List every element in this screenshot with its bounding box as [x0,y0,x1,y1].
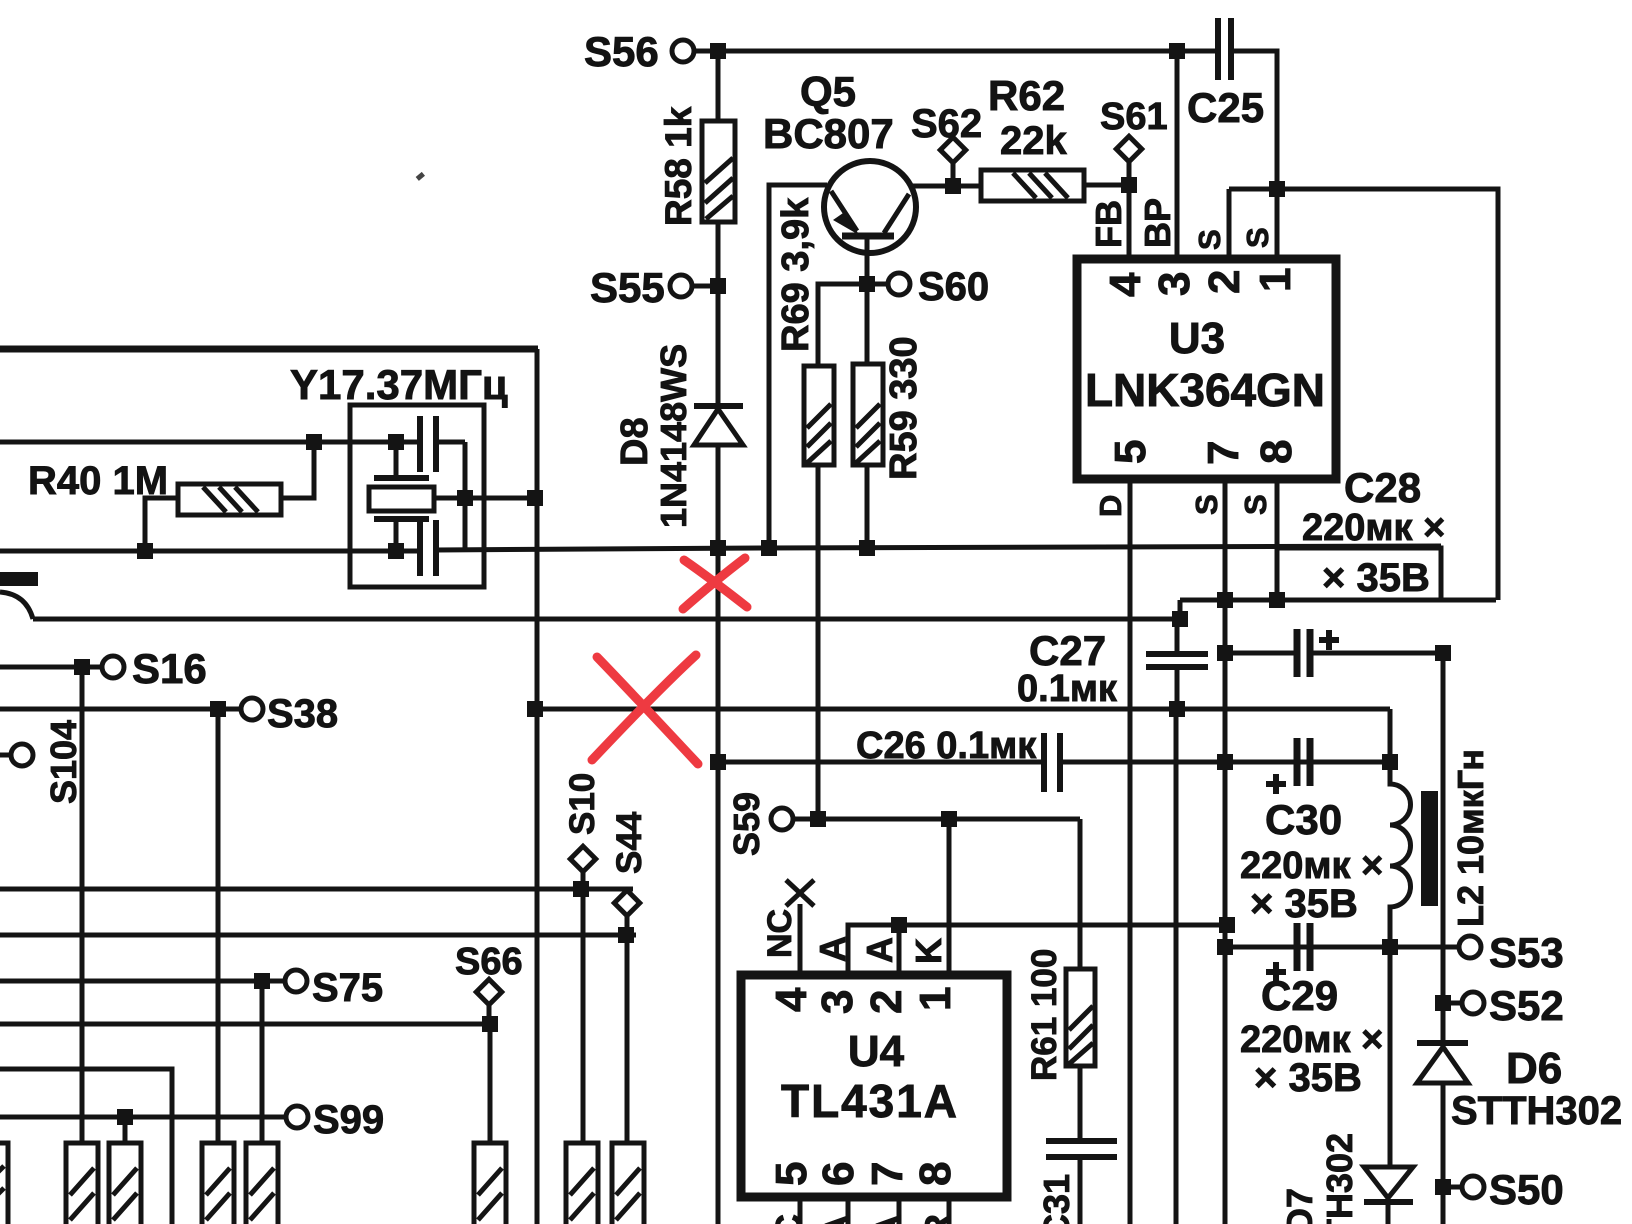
speck artifact [416,172,425,181]
svg-text:2: 2 [1200,270,1249,294]
node S60 [859,276,875,292]
resistor row R g x627 [612,1143,644,1224]
svg-text:S62: S62 [911,102,982,146]
wire R69 top jog to S60 node [818,284,867,366]
svg-text:BP: BP [1137,198,1178,248]
node crystal right [457,490,473,506]
wire S75 rail y981 [0,979,285,984]
wire S75 vertical x262 [260,981,265,1143]
svg-text:R: R [917,1214,958,1224]
left edge thick stub [0,572,38,586]
wire S16 vertical x82 [80,667,85,1143]
wire C25 right to corner down [1230,51,1277,190]
node A rail end x1227 [1219,917,1235,933]
wire U4 pin2 stub [897,925,902,975]
svg-text:8: 8 [911,1162,960,1186]
svg-text:22k: 22k [1000,119,1067,163]
wire main ground rail y548 [0,549,420,554]
svg-text:NC: NC [761,909,799,958]
svg-text:1: 1 [911,987,960,1011]
node crystal top [388,434,404,450]
node S55 x718 [710,278,726,294]
terminal S104 [11,744,33,766]
wire xtal upper rail y442 [0,440,420,445]
svg-text:1N4148WS: 1N4148WS [653,344,694,528]
inductor L2 coil [1390,762,1411,947]
resistor row R e x490 [474,1143,506,1224]
wire S38 rail y709 left [0,707,241,712]
crystal Y1 bottom plate [374,516,429,522]
svg-text:STTH302: STTH302 [1319,1133,1360,1224]
node S52 [1435,995,1451,1011]
node S99 x125 [117,1109,133,1125]
wire R62 right to S61 node [1084,183,1129,188]
wire S10 stem [581,871,586,889]
wire output vertical x1443 [1441,653,1446,1224]
resistor R58 stems [716,51,721,121]
wire S38 vertical x218 [216,709,221,1143]
svg-text:S38: S38 [267,692,338,736]
svg-text:× 35В: × 35В [1322,556,1430,600]
wire S59 rail y819 [818,817,1080,822]
svg-text:R58 1k: R58 1k [658,106,699,226]
wire top rail S56 to C25 [694,49,1218,54]
C28 35V label box [1277,548,1441,599]
node x1390 y947 [1382,939,1398,955]
wire S66 rail y1024 [0,1022,490,1027]
svg-text:C27: C27 [1029,627,1106,674]
svg-text:1: 1 [1251,268,1300,292]
wire S44 vertical to resistor [625,935,630,1143]
svg-text:S: S [1238,494,1273,515]
svg-text:S104: S104 [43,720,84,804]
node BP stub top x1177 [1169,43,1185,59]
wire BP pin3 stub from top rail [1175,51,1180,259]
svg-text:S10: S10 [563,773,602,835]
node module edge y498 [527,490,543,506]
svg-text:S56: S56 [584,28,659,75]
node S16 [74,659,90,675]
node S66 [482,1016,498,1032]
svg-text:LNK364GN: LNK364GN [1085,364,1325,416]
NC cross mark [786,880,814,906]
node pin2 A x899 [891,917,907,933]
svg-text:S: S [1189,494,1224,515]
wire R59 bottom stem [865,465,870,548]
svg-text:S: S [1192,229,1227,250]
node x718 y762 [710,754,726,770]
wire crystal right node to module edge [434,496,537,501]
svg-text:K: K [908,938,949,964]
transistor Q5 circle [824,161,916,253]
svg-text:R62: R62 [988,72,1065,119]
resistor bottom row partial at left edge [0,1143,8,1224]
svg-text:FB: FB [1088,200,1129,248]
svg-text:C31: C31 [1036,1174,1077,1224]
svg-text:7: 7 [1199,441,1248,465]
capacitor C27 plates [1146,651,1208,657]
transistor Q5 collector diagonal [884,194,909,233]
wire S59 stub [793,817,818,822]
node R40 right jog [306,434,322,450]
svg-text:D: D [1093,495,1128,517]
capacitor xtal top (series on y442) [417,416,423,472]
transistor Q5 base bar [842,233,894,240]
capacitor xtal bottom (series on ground rail) [417,520,423,576]
terminal S75 [285,970,307,992]
node K stub x949 [941,811,957,827]
red cross mark lower [597,657,698,764]
diode D8 [694,403,743,409]
capacitor C30 electrolytic on y762 [1294,738,1301,786]
resistor row R c x218 [202,1143,234,1224]
terminal S99 [286,1106,308,1128]
svg-text:S50: S50 [1489,1166,1564,1213]
node y709 module edge [527,701,543,717]
wire long rail y619 [33,617,1180,622]
wire jog up from y619 to y600 [1178,600,1183,619]
svg-text:S44: S44 [610,811,649,874]
wire U4 A rail y925 [848,925,1227,975]
resistor R40 body [178,484,281,515]
wire C29 rail y947 [1225,945,1458,950]
red cross mark upper [684,560,747,607]
svg-text:BC807: BC807 [763,110,894,157]
wire U4 pin5 bottom stub [798,1197,803,1224]
svg-text:8: 8 [1252,440,1301,464]
capacitor C25 [1215,18,1221,80]
node S38 [210,701,226,717]
terminal S66 diamond [476,979,501,1004]
wire Q5 base down to S60 node [865,236,870,283]
svg-text:S53: S53 [1489,929,1564,976]
node R59 ground x867 [859,540,875,556]
wire S66 vertical to resistor [488,1024,493,1143]
terminal S55 [670,275,692,297]
terminal S56 [672,40,694,62]
wire S44 rail y935 [0,933,636,938]
svg-text:5: 5 [1106,440,1155,464]
svg-text:S59: S59 [726,792,767,856]
terminal S10 diamond [570,846,595,871]
node C27 bottom y709 [1169,701,1185,717]
wire R40 left lead [145,498,178,548]
svg-text:C: C [768,1214,809,1224]
wire source rail y189 pins1-2 to right loop [1229,189,1498,600]
wire y1069 with corner down x172 [0,1069,172,1224]
wire D7 branch vertical x1390 [1388,947,1393,1167]
IC U4 box [741,975,1007,1197]
wire S10 vertical to resistor [581,889,586,1143]
node D8 ground x718 [710,540,726,556]
capacitor C28 electrolytic on y653 [1225,651,1297,656]
svg-text:4: 4 [767,987,816,1012]
wire U4 pin4 NC stub [798,904,803,975]
terminal S16 [102,656,124,678]
wire R69 bottom long stem to S59 [816,465,821,819]
wire R61 feed corner x1080 [1078,819,1083,969]
svg-text:C28: C28 [1344,464,1421,511]
svg-text:L2 10мкГн: L2 10мкГн [1450,749,1491,927]
wire D8 net vertical x718 down [716,548,721,1224]
capacitor C31 plates [1046,1138,1117,1144]
svg-text:C30: C30 [1265,796,1342,843]
svg-text:Y17.37МГц: Y17.37МГц [290,361,508,408]
diode D7 [1364,1167,1413,1198]
node S59 x818 [810,811,826,827]
terminal S60 [888,273,910,295]
svg-text:6: 6 [814,1162,863,1186]
wire C31 bottom lead [1078,1157,1083,1224]
big module box top edge [0,346,538,353]
node C28 right x1443 [1435,645,1451,661]
transistor Q5 emitter diagonal with arrow [831,191,857,231]
node C26 rail x1225 y762 [1217,754,1233,770]
wire S61 stub [1127,161,1132,183]
svg-text:U3: U3 [1169,314,1225,363]
wire S16 y667 [0,665,102,670]
wire Q5 emitter left leg to ground [769,185,827,548]
wire S10 rail y889 [0,887,633,892]
svg-text:A: A [817,1214,858,1224]
terminal S44 diamond [614,890,639,915]
resistor R61 body [1066,969,1095,1066]
svg-text:5: 5 [767,1162,816,1186]
svg-text:S: S [1240,227,1275,248]
svg-text:STTH302: STTH302 [1451,1089,1622,1133]
wire crystal right side vertical [463,442,468,548]
svg-text:S55: S55 [590,264,665,311]
svg-text:4: 4 [1101,272,1150,297]
svg-text:R59 330: R59 330 [883,336,925,480]
terminal S53 [1459,936,1481,958]
svg-text:TL431A: TL431A [781,1075,957,1127]
wire U4 pin8 bottom stub [947,1197,952,1224]
svg-text:2: 2 [862,990,911,1014]
node at S56 rail x718 [710,43,726,59]
wire FB pin4 stub from S61 node [1127,185,1132,259]
node S50 [1435,1179,1451,1195]
svg-text:D7: D7 [1279,1188,1320,1224]
svg-text:A: A [859,937,900,963]
capacitor C29 electrolytic on y947 [1294,923,1301,971]
capacitor C27 leads [1175,619,1180,652]
resistor row R d x262 [246,1143,278,1224]
wire S99 rail y1117 [0,1115,286,1120]
wire rail y709 right section [535,707,1390,712]
node S61 [1121,177,1137,193]
wire S55 node to D8 [716,293,721,406]
wire R61 bottom stem [1078,1066,1083,1141]
svg-text:S99: S99 [313,1098,384,1142]
terminal S59 [771,808,793,830]
svg-text:S66: S66 [455,941,523,983]
node jog x1180 [1172,611,1188,627]
svg-text:S16: S16 [132,645,207,692]
terminal S50 [1462,1176,1484,1198]
wire C26 rail y762 [718,760,1044,765]
node S10 [573,881,589,897]
svg-text:C25: C25 [1187,84,1264,131]
resistor R58 body [702,121,735,222]
node S44 [618,927,634,943]
resistor row R a x82 [66,1143,98,1224]
svg-text:U4: U4 [848,1027,905,1076]
terminal S61 [1116,136,1141,161]
terminal S38 [241,698,263,720]
svg-text:S75: S75 [312,966,383,1010]
wire S44 stem [625,915,630,935]
wire rail y600 [1180,598,1496,603]
node crystal ground [388,543,404,559]
node C28 left x1225 [1217,645,1233,661]
resistor row R f x583 [566,1143,598,1224]
wire S55 stub [692,284,712,289]
node R40 ground [137,543,153,559]
svg-text:S60: S60 [918,265,989,309]
svg-text:S52: S52 [1489,982,1564,1029]
wire K pin1 vertical x949 [947,819,952,975]
resistor row R b x125 [109,1143,141,1224]
wire R40 right lead [281,442,314,498]
wire y709 corner down to y762 at x1390 [1388,709,1393,762]
svg-text:R69 3,9k: R69 3,9k [775,197,817,352]
svg-text:3: 3 [1150,272,1199,296]
node pin7 y600 [1217,592,1233,608]
wire U3 pin8 stub down [1275,479,1280,600]
wire crystal bottom lead [394,519,399,548]
crystal Y1 top plate [374,475,429,481]
node pin1/C25 junction [1269,181,1285,197]
wire U4 pin7 bottom stub [897,1197,902,1224]
terminal S52 [1462,992,1484,1014]
wire hook curve left end of y619 rail [0,592,33,619]
terminal S62 [940,137,965,162]
wire C27 net vertical down x1176 [1174,709,1179,1224]
svg-text:D6: D6 [1506,1044,1562,1093]
svg-text:3: 3 [813,990,862,1014]
svg-text:× 35В: × 35В [1250,882,1358,926]
wire crystal top lead [394,442,399,478]
svg-text:A: A [868,1214,909,1224]
resistor R69 body [804,366,834,465]
wire R59 top stem from S60 node [865,290,870,364]
svg-text:7: 7 [863,1162,912,1186]
node Q5 left leg ground x769 [761,540,777,556]
svg-text:220мк ×: 220мк × [1302,507,1445,549]
svg-text:D8: D8 [614,417,656,466]
wire pin2 stub [1227,189,1232,259]
svg-text:220мк ×: 220мк × [1240,845,1383,887]
crystal Y1 body [369,487,434,511]
svg-text:C26 0.1мк: C26 0.1мк [856,725,1037,767]
wire S66 stem [487,1004,492,1024]
resistor R62 body [981,170,1084,201]
node pin8 y600 [1269,592,1285,608]
resistor R59 body [853,364,883,465]
wire pin1 stub [1275,189,1280,259]
node S62 [945,178,961,194]
svg-text:Q5: Q5 [800,68,856,115]
wire S99 stem to resistor [123,1117,128,1143]
svg-text:× 35В: × 35В [1254,1056,1362,1100]
big module box right edge [535,349,540,1224]
wire U4 pin6 bottom stub [846,1197,851,1224]
IC U3 box [1077,259,1336,479]
svg-text:A: A [812,936,853,962]
wire U3 pin7 S vertical down [1223,479,1228,1224]
diode D6 [1417,1040,1468,1046]
crystal unit box [350,405,484,587]
svg-text:R61 100: R61 100 [1025,949,1064,1081]
node x1225 y947 [1217,939,1233,955]
wire S62 stub [951,162,956,184]
svg-text:220мк ×: 220мк × [1240,1019,1383,1061]
node S75 [254,973,270,989]
svg-text:S61: S61 [1100,96,1168,138]
wire U3 pin5 D vertical down [1128,479,1133,1224]
wire Q5 collector to R62 [912,184,981,189]
node x1390 y762 [1382,754,1398,770]
svg-text:R40 1M: R40 1M [28,459,168,503]
svg-text:C29: C29 [1261,972,1338,1019]
svg-text:0.1мк: 0.1мк [1017,668,1118,710]
capacitor C26 [1041,733,1047,792]
inductor L2 core bar [1421,791,1438,906]
